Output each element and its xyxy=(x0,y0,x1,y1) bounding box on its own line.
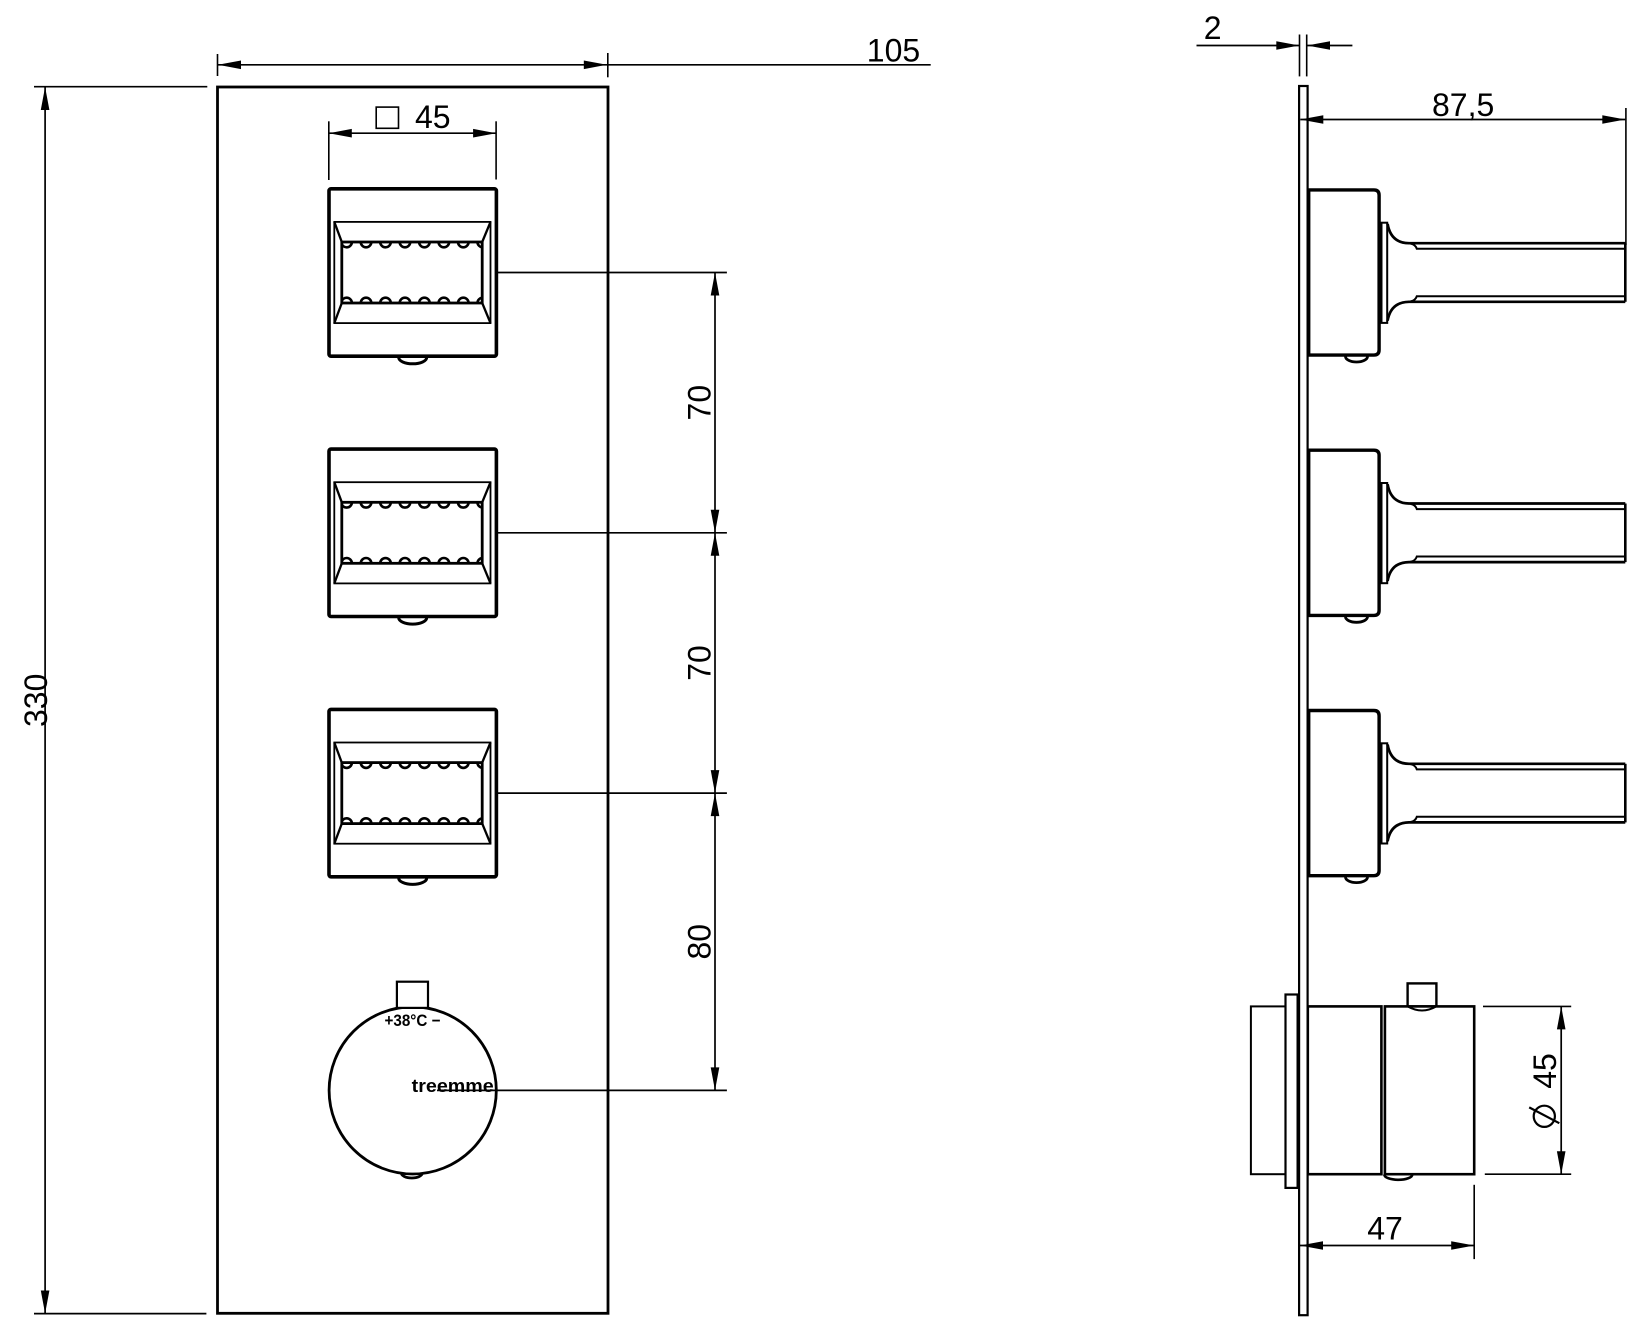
svg-text:80: 80 xyxy=(682,924,718,960)
svg-text:+38°C −: +38°C − xyxy=(385,1012,441,1030)
svg-text:2: 2 xyxy=(1204,10,1222,46)
svg-text:treemme: treemme xyxy=(412,1076,494,1096)
svg-text:87,5: 87,5 xyxy=(1432,87,1494,123)
svg-text:45: 45 xyxy=(1527,1053,1563,1089)
svg-text:70: 70 xyxy=(682,385,718,421)
svg-text:105: 105 xyxy=(867,32,920,68)
svg-text:70: 70 xyxy=(682,645,718,681)
svg-text:45: 45 xyxy=(415,99,451,135)
svg-text:47: 47 xyxy=(1367,1210,1403,1246)
svg-text:330: 330 xyxy=(18,674,54,727)
